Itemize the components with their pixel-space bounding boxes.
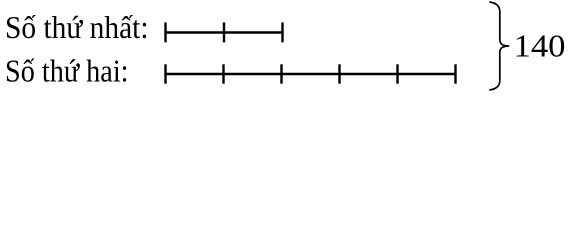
svg-text:140: 140 [514, 28, 566, 64]
svg-text:Số thứ hai:: Số thứ hai: [5, 53, 129, 89]
svg-text:Số thứ nhất:: Số thứ nhất: [5, 9, 149, 45]
